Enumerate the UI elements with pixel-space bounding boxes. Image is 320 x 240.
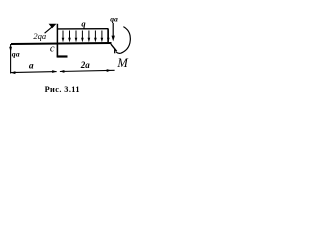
label 2qa: [33, 31, 46, 41]
svg-text:qa: qa: [12, 49, 20, 58]
dimension line: [11, 70, 115, 72]
svg-text:qa: qa: [110, 14, 118, 23]
post at C (above beam): [56, 24, 58, 44]
distributed load q: arrows: [62, 31, 110, 43]
beam AB: [11, 43, 112, 44]
caption Рис. 3.11: [45, 85, 80, 94]
dimension arrowhead right (points right): [107, 69, 112, 72]
dimension arrowhead left (points left): [11, 71, 16, 74]
svg-text:2qa: 2qa: [33, 31, 46, 41]
force 2qa (inclined, arrow to post top): [45, 24, 57, 34]
svg-text:2a: 2a: [80, 60, 91, 70]
label a: [29, 62, 34, 72]
dimension arrowheads at C (tip to tip): [52, 70, 64, 73]
distributed load q: right edge: [107, 29, 109, 43]
svg-text:M: M: [116, 56, 128, 70]
svg-text:q: q: [81, 19, 86, 29]
moment arc M arrowhead barb (diagonal at beam end): [111, 44, 117, 51]
label qa at B: [110, 14, 118, 23]
label 2a: [80, 60, 91, 70]
label q: [81, 19, 86, 29]
moment arc M arrowhead barb (vertical): [114, 49, 116, 53]
label c: [50, 43, 55, 54]
svg-text:a: a: [29, 62, 34, 72]
distributed load q: top line: [57, 28, 108, 30]
label M: [116, 56, 128, 70]
force qa at left end (downward): [9, 44, 12, 74]
bracket step at C (below beam): [57, 44, 68, 58]
svg-text:c: c: [50, 43, 55, 54]
moment arc M: [116, 27, 130, 54]
label qa: [12, 49, 20, 58]
force qa at right end B (downward): [112, 23, 115, 41]
svg-text:Рис. 3.11: Рис. 3.11: [45, 85, 80, 94]
